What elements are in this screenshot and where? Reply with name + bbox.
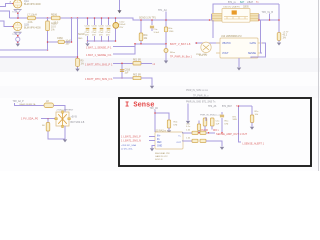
svg-text:x2 I2C_SCL: x2 I2C_SCL (121, 148, 134, 150)
svg-text:1 BATT_RTN_SNS_N 1: 1 BATT_RTN_SNS_N 1 (85, 77, 113, 81)
svg-text:TP2_A5: TP2_A5 (150, 107, 159, 110)
svg-text:PAD: PAD (78, 37, 83, 40)
svg-text:1 PV_SDA_P0: 1 PV_SDA_P0 (21, 117, 39, 121)
svg-text:TP_PWR_IN_Bxx 1: TP_PWR_IN_Bxx 1 (170, 55, 193, 58)
svg-text:+5V B: +5V B (71, 116, 78, 118)
svg-text:+3V3 I2C_SDA: +3V3 I2C_SDA (121, 144, 136, 147)
svg-text:1 BAT_1_SENSE_N 1: 1 BAT_1_SENSE_N 1 (86, 53, 112, 57)
svg-text:DNI: DNI (225, 123, 229, 125)
svg-text:1uF: 1uF (216, 123, 220, 125)
svg-text:BAT: BAT (240, 1, 245, 4)
svg-text:BT1_BAT: BT1_BAT (222, 105, 232, 108)
svg-text:GAIN 20 V/V: GAIN 20 V/V (155, 155, 168, 158)
svg-text:BT1_xx: BT1_xx (228, 2, 237, 4)
svg-text:PWR_IN_SNS xx xxx: PWR_IN_SNS xx xxx (186, 90, 209, 92)
svg-text:C106: C106 (92, 25, 98, 27)
svg-text:43.2: 43.2 (283, 34, 288, 36)
svg-text:BEAD FERR 2A: BEAD FERR 2A (20, 103, 36, 106)
svg-text:x/BAT: x/BAT (247, 1, 254, 4)
svg-text:3.3uF: 3.3uF (154, 32, 160, 34)
svg-text:1 BATT_RTN_SNS_P 1: 1 BATT_RTN_SNS_P 1 (85, 62, 113, 66)
svg-text:1 BAT_1_SENSE_P 1: 1 BAT_1_SENSE_P 1 (86, 45, 112, 49)
svg-text:SOIC-8: SOIC-8 (155, 159, 163, 161)
svg-text:GND: GND (157, 146, 162, 148)
svg-text:49.9 1%: 49.9 1% (199, 55, 207, 57)
svg-text:SGND 3.3V TP1: SGND 3.3V TP1 (139, 18, 157, 20)
svg-text:TO-261: TO-261 (12, 11, 20, 13)
svg-text:TP2_Vx_B: TP2_Vx_B (262, 11, 274, 14)
svg-text:SGND: SGND (78, 34, 85, 36)
svg-text:SENSE_AMP_OUT 1 OUT: SENSE_AMP_OUT 1 OUT (216, 132, 248, 136)
svg-text:BAT SNS 2-B: BAT SNS 2-B (71, 121, 85, 124)
svg-text:BLM NPN 4000: BLM NPN 4000 (24, 27, 41, 30)
svg-text:OUT: OUT (176, 142, 181, 144)
svg-text:TO-261: TO-261 (12, 34, 20, 36)
svg-text:R02 0R: R02 0R (133, 74, 141, 76)
svg-text:GATE: GATE (250, 42, 257, 45)
svg-text:I_SENSE_ALERT 1: I_SENSE_ALERT 1 (242, 143, 265, 146)
svg-text:TP_PWR_IN_x: TP_PWR_IN_x (193, 96, 209, 98)
svg-text:PWR_IN_SNS: PWR_IN_SNS (200, 115, 215, 117)
svg-text:TP2_A6: TP2_A6 (208, 105, 217, 108)
svg-text:DNI: DNI (174, 124, 178, 126)
svg-text:REF: REF (157, 142, 162, 144)
svg-text:INA 240A1 PW: INA 240A1 PW (155, 152, 171, 155)
svg-text:1uF: 1uF (125, 72, 130, 74)
svg-text:+2.7V: +2.7V (283, 31, 289, 33)
svg-text:1206: 1206 (169, 31, 175, 33)
svg-text:TP2_A2_P: TP2_A2_P (13, 100, 25, 103)
svg-text:U10 LM5050MK-PU: U10 LM5050MK-PU (221, 36, 242, 38)
svg-text:TP1_A4: TP1_A4 (158, 9, 167, 12)
svg-text:BATT_V_BAT 1-8: BATT_V_BAT 1-8 (170, 42, 191, 46)
svg-text:R006: R006 (51, 13, 58, 16)
svg-text:C060: C060 (57, 37, 63, 40)
svg-text:C112: C112 (119, 21, 125, 23)
svg-text:U2 INA2xx: U2 INA2xx (155, 129, 167, 132)
svg-text:C106: C106 (106, 25, 112, 27)
svg-text:R01 0R: R01 0R (133, 60, 141, 62)
svg-text:+VDD CURRENT: +VDD CURRENT (56, 110, 74, 112)
svg-text:1 I_BAT1_SNS_N: 1 I_BAT1_SNS_N (121, 140, 141, 143)
svg-text:PWR_IN_SNS: PWR_IN_SNS (186, 101, 201, 103)
svg-text:CSD17x Q5A HS: CSD17x Q5A HS (223, 6, 240, 9)
svg-text:C106: C106 (85, 25, 91, 27)
svg-text:1%: 1% (283, 37, 286, 39)
svg-text:1%: 1% (81, 64, 84, 66)
svg-text:180uF: 180uF (119, 24, 126, 26)
svg-text:SENSE: SENSE (248, 52, 257, 55)
svg-text:SNS: SNS (233, 119, 238, 121)
svg-text:BLM NPN 4000: BLM NPN 4000 (24, 3, 41, 6)
svg-text:10uF: 10uF (66, 41, 72, 43)
svg-text:1 I_BAT1_SNS_P: 1 I_BAT1_SNS_P (121, 136, 141, 139)
svg-text:VBATIN: VBATIN (222, 42, 231, 45)
svg-text:25V: 25V (119, 27, 123, 29)
svg-text:BT1_SNS Tx: BT1_SNS Tx (202, 101, 216, 103)
svg-text:4.0A: 4.0A (28, 21, 33, 24)
svg-text:Q905: Q905 (243, 7, 249, 9)
svg-text:DNI x: DNI x (213, 130, 220, 132)
svg-text:IN-: IN- (157, 139, 160, 141)
svg-text:C106: C106 (99, 25, 105, 27)
svg-text:VOUT: VOUT (222, 52, 229, 55)
svg-text:16V: 16V (66, 44, 71, 46)
svg-text:C016: C016 (125, 69, 131, 71)
svg-text:L7 1.5uH: L7 1.5uH (27, 13, 37, 16)
